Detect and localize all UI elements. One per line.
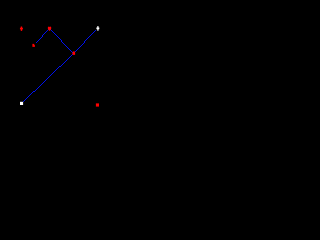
wire: edge from heart node B down-right to node E: [49, 28, 74, 54]
node B: red heart marker: [48, 27, 51, 31]
node G: red square marker: [96, 103, 99, 106]
wire: long edge from white square F up-right to node E: [21, 53, 74, 104]
node D: small red marker: [32, 44, 35, 47]
node A: red diamond marker: [20, 27, 23, 31]
node F: white square marker: [20, 102, 23, 105]
wire: edge from node E up-right toward white diamond C: [73, 30, 96, 54]
wire: edge from heart node B down-left to node D: [36, 29, 49, 43]
node C: white diamond marker: [96, 26, 99, 31]
node E: small red marker with left point: [72, 52, 75, 55]
